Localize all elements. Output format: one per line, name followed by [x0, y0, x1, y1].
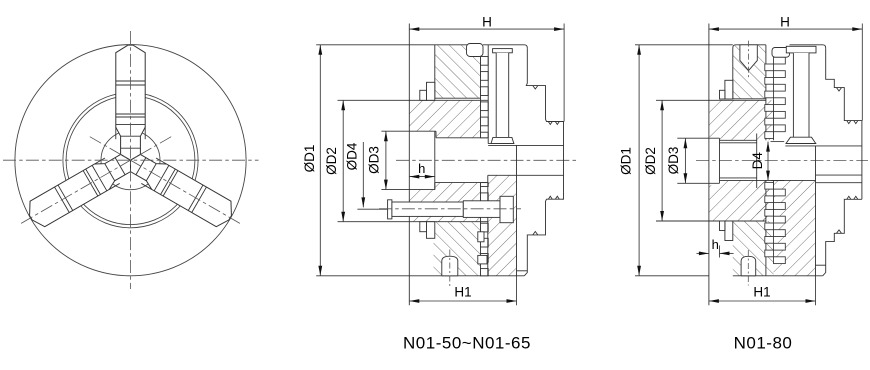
back body lower arm top [488, 174, 564, 176]
bore opening top right + OD3 ext [677, 137, 719, 139]
jaw step upper B right [720, 90, 725, 99]
svg-text:ØD1: ØD1 [302, 145, 317, 173]
bore top edge + OD3 extension [381, 130, 436, 132]
bore opening bottom right + OD3 ext [677, 182, 719, 184]
svg-text:ØD2: ØD2 [324, 147, 339, 175]
centerline vertical [130, 31, 132, 289]
jaw top edge right [733, 45, 766, 48]
scroll mesh notches [765, 64, 774, 71]
jaw bottom edge [435, 97, 481, 99]
guideway surface right [656, 99, 766, 101]
svg-text:D4: D4 [750, 152, 765, 170]
jaw lower-left [123, 147, 237, 230]
dimension OD4 [362, 142, 364, 207]
front face + extension right [708, 24, 710, 306]
bolt hole in jaw [740, 45, 757, 71]
dimension H right [709, 28, 862, 30]
lower guideway surface + OD2 extension [338, 221, 489, 223]
bore wall lower [435, 182, 488, 184]
svg-text:N01-80: N01-80 [734, 334, 793, 353]
top jaw block section [435, 45, 481, 98]
jaw front face [434, 45, 436, 98]
svg-text:H: H [482, 15, 492, 30]
dimension h right [697, 252, 709, 254]
jaw step upper B [420, 90, 427, 100]
jaw step lower B right [720, 221, 725, 231]
chamfer ring edge right [719, 138, 721, 183]
dimension H1 [409, 300, 516, 302]
body lower band right [709, 180, 774, 221]
front view: 3-jaw chuck [3, 31, 259, 289]
svg-text:H: H [780, 15, 790, 30]
thread notch v2 [548, 122, 559, 125]
dimension D4 [767, 142, 769, 181]
back underside right [785, 145, 862, 147]
cap screw foot right [786, 137, 816, 143]
svg-text:ØD3: ØD3 [666, 147, 681, 175]
scroll rack teeth [481, 57, 489, 66]
body front face + H/H1 extension line [408, 24, 410, 306]
centerline jaw 210deg [90, 137, 242, 225]
notch r4 [837, 230, 842, 233]
dimension OD1 [319, 45, 321, 276]
bore wall upper [436, 137, 488, 139]
notch r3 [847, 196, 858, 199]
pinion centerline right [747, 250, 749, 286]
top jaw block section right [733, 45, 766, 99]
jaw step lower A [427, 222, 435, 239]
back body top edge [483, 45, 527, 49]
body top edge + OD1 extension [316, 44, 468, 46]
dimension OD3 right [684, 138, 686, 183]
screw body [463, 201, 500, 218]
jaw right edge right view [765, 45, 767, 141]
svg-text:ØD3: ØD3 [367, 146, 382, 174]
flange corner step [517, 270, 528, 272]
dimension OD1 right [638, 45, 640, 276]
hole boundary lower right [757, 179, 816, 181]
back face right [815, 146, 817, 276]
flange profile lower [524, 199, 563, 276]
pinion centerline [449, 250, 451, 287]
guideway surface + OD2 extension [338, 99, 489, 101]
svg-text:h: h [712, 237, 719, 252]
bore circle inner [66, 96, 195, 225]
flange profile lower right [823, 199, 862, 275]
jaw cap [467, 44, 484, 57]
bore bottom edge + OD3 extension [381, 189, 434, 191]
body upper band right [709, 100, 774, 140]
dimension OD2 [342, 100, 344, 221]
bore step [435, 131, 437, 138]
jaw step upper A right [725, 80, 733, 99]
jaw top [116, 45, 145, 160]
bottom edge right [733, 275, 823, 277]
pinion boss right [741, 256, 756, 276]
scroll mesh teeth [774, 57, 786, 64]
jaw step upper A [427, 82, 435, 100]
flange corner step right [816, 264, 826, 266]
chuck axis centerline [396, 159, 577, 161]
svg-text:h: h [418, 161, 425, 176]
screw centerline [379, 208, 521, 210]
cap screw stem [496, 53, 509, 138]
body section lower band [409, 183, 480, 222]
jaw step lower B [420, 222, 427, 232]
jaw bottom edge right [733, 98, 766, 100]
jaw lower-right [23, 147, 137, 230]
back body lower section right [757, 180, 816, 275]
cap screw head right [786, 46, 816, 53]
thread notch v3 [548, 196, 559, 199]
thread notch v1 [533, 86, 538, 89]
notch r2 [847, 121, 858, 124]
back body underside [488, 143, 514, 145]
dimension h [409, 176, 435, 178]
cap screw foot [491, 137, 514, 143]
back top edge right [790, 45, 826, 49]
jaw right edge [480, 45, 482, 138]
screw shank [392, 202, 463, 216]
thread notch v4 [533, 232, 538, 235]
lower arm top right [816, 174, 862, 176]
mesh boundary right view [773, 100, 775, 140]
notch r1 [837, 88, 842, 91]
flange profile upper [526, 48, 563, 199]
dimension OD2 right [661, 100, 663, 221]
bottom jaw block section [434, 222, 481, 276]
pinion boss [442, 256, 458, 276]
jaw front face right [732, 48, 734, 99]
top edge + OD1 extension right [635, 44, 733, 46]
bore wall bottom right [720, 179, 757, 181]
body section upper band [409, 100, 480, 138]
chuck body outer circle [15, 45, 246, 276]
dimension H [409, 28, 564, 30]
svg-text:N01-50~N01-65: N01-50~N01-65 [403, 334, 531, 353]
body bottom edge [409, 275, 524, 277]
cap screw stem right [793, 53, 809, 137]
scroll cap right [772, 48, 790, 58]
centerline horizontal [3, 159, 259, 161]
body back face [516, 145, 518, 275]
bottom jaw block section right [733, 221, 774, 276]
scroll front face seen through bore [756, 134, 758, 189]
chuck axis centerline right [696, 159, 868, 161]
bore circle outer [63, 93, 198, 228]
dimension OD3 [385, 131, 387, 189]
svg-text:H1: H1 [454, 284, 471, 299]
svg-text:H1: H1 [753, 284, 770, 299]
back body lower section [488, 175, 517, 275]
dimension H1 right [709, 300, 816, 302]
jaw nut notch A [478, 232, 484, 242]
back body front face lower [487, 175, 489, 275]
svg-text:ØD1: ØD1 [619, 147, 634, 175]
screw square head [500, 196, 513, 222]
cap screw head [493, 49, 513, 53]
counterbore edge [434, 131, 436, 189]
hub circle [101, 131, 160, 190]
flange profile upper right [826, 48, 862, 199]
jaw nut notch B [478, 255, 487, 264]
centerline jaw 330deg [19, 137, 171, 225]
lower guideway right [656, 220, 766, 222]
bore wall top right [720, 139, 757, 141]
back body front face upper [487, 45, 489, 144]
svg-text:ØD4: ØD4 [345, 142, 360, 170]
jaw step lower A right [725, 221, 733, 241]
screw head cap [388, 200, 392, 219]
bore step lower [434, 183, 436, 190]
svg-text:ØD2: ØD2 [643, 147, 658, 175]
